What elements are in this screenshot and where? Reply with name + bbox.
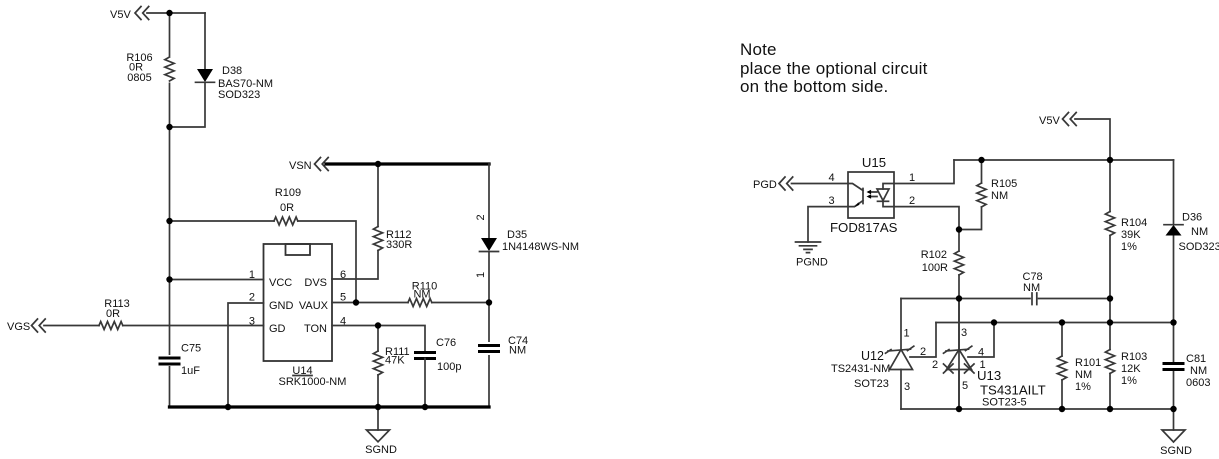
svg-text:on the bottom side.: on the bottom side. [740, 77, 888, 96]
svg-text:D36: D36 [1182, 212, 1202, 224]
svg-text:TS431AILT: TS431AILT [980, 383, 1046, 398]
svg-text:4: 4 [978, 347, 984, 359]
svg-text:PGD: PGD [753, 179, 777, 191]
svg-text:0805: 0805 [127, 72, 151, 84]
svg-text:Note: Note [740, 40, 777, 59]
svg-text:R109: R109 [275, 187, 301, 199]
svg-text:SGND: SGND [1160, 445, 1192, 457]
svg-text:NM: NM [991, 190, 1008, 202]
svg-text:47K: 47K [385, 355, 405, 367]
svg-text:3: 3 [829, 195, 835, 207]
svg-text:VGS: VGS [7, 321, 30, 333]
svg-text:R101: R101 [1075, 357, 1101, 369]
svg-text:D38: D38 [222, 65, 242, 77]
svg-text:2: 2 [475, 214, 487, 220]
svg-text:U12: U12 [861, 349, 884, 363]
svg-text:R104: R104 [1121, 217, 1147, 229]
svg-text:R103: R103 [1121, 351, 1147, 363]
svg-text:GD: GD [269, 323, 286, 335]
svg-text:D35: D35 [507, 229, 527, 241]
svg-text:100p: 100p [437, 361, 461, 373]
svg-text:3: 3 [904, 381, 910, 393]
svg-text:1: 1 [909, 172, 915, 184]
svg-text:2: 2 [909, 195, 915, 207]
svg-text:NM: NM [1075, 369, 1092, 381]
svg-text:NM: NM [509, 345, 526, 357]
svg-text:6: 6 [340, 269, 346, 281]
svg-text:R102: R102 [921, 249, 947, 261]
svg-text:1%: 1% [1075, 381, 1091, 393]
svg-text:SOT23-5: SOT23-5 [982, 397, 1027, 409]
svg-text:SOT23: SOT23 [854, 378, 889, 390]
svg-text:C78: C78 [1023, 271, 1043, 283]
svg-text:SRK1000-NM: SRK1000-NM [279, 376, 347, 388]
svg-text:NM: NM [1023, 282, 1040, 294]
svg-text:C76: C76 [436, 337, 456, 349]
svg-text:V5V: V5V [1039, 115, 1060, 127]
svg-text:V5V: V5V [110, 9, 131, 21]
svg-text:FOD817AS: FOD817AS [830, 220, 898, 235]
svg-text:C75: C75 [181, 343, 201, 355]
svg-text:SGND: SGND [365, 444, 397, 456]
svg-text:5: 5 [962, 380, 968, 392]
svg-text:2: 2 [249, 292, 255, 304]
svg-text:PGND: PGND [796, 257, 828, 269]
svg-text:0603: 0603 [1186, 377, 1210, 389]
svg-text:1N4148WS-NM: 1N4148WS-NM [502, 241, 579, 253]
svg-text:1: 1 [475, 272, 487, 278]
svg-text:1%: 1% [1121, 375, 1137, 387]
svg-text:NM: NM [1191, 226, 1208, 238]
svg-text:1uF: 1uF [181, 365, 200, 377]
svg-text:330R: 330R [386, 239, 412, 251]
svg-text:1: 1 [904, 328, 910, 340]
svg-text:DVS: DVS [304, 277, 327, 289]
svg-text:100R: 100R [922, 262, 948, 274]
svg-text:0R: 0R [280, 202, 294, 214]
svg-text:2: 2 [920, 346, 926, 358]
svg-text:NM: NM [413, 288, 430, 300]
svg-text:VCC: VCC [269, 277, 292, 289]
svg-text:2: 2 [932, 359, 938, 371]
svg-text:3: 3 [961, 327, 967, 339]
svg-text:GND: GND [269, 300, 294, 312]
svg-text:0R: 0R [106, 308, 120, 320]
svg-text:SOD323: SOD323 [1179, 241, 1219, 253]
svg-text:1%: 1% [1121, 241, 1137, 253]
svg-text:VSN: VSN [289, 160, 312, 172]
svg-text:U13: U13 [977, 368, 1001, 383]
svg-text:VAUX: VAUX [299, 300, 329, 312]
svg-text:U15: U15 [862, 155, 886, 170]
svg-text:place the optional circuit: place the optional circuit [740, 59, 928, 78]
svg-text:C81: C81 [1186, 353, 1206, 365]
svg-text:NM: NM [1190, 365, 1207, 377]
svg-text:TS2431-NM: TS2431-NM [831, 363, 890, 375]
svg-text:39K: 39K [1121, 229, 1141, 241]
svg-text:SOD323: SOD323 [218, 89, 260, 101]
svg-text:TON: TON [304, 323, 327, 335]
svg-text:4: 4 [829, 172, 835, 184]
svg-text:R105: R105 [991, 178, 1017, 190]
svg-text:12K: 12K [1121, 363, 1141, 375]
